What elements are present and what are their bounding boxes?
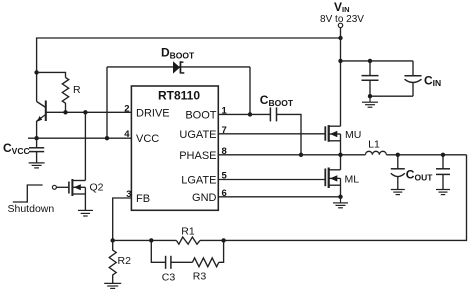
node R1 right branch junction <box>221 238 225 242</box>
node input cap tap <box>368 59 372 63</box>
node ML source GND junction <box>338 195 342 199</box>
wire DBOOT anode vertical <box>106 67 108 138</box>
capacitor C_OUT <box>391 155 405 190</box>
node collector junction <box>34 70 38 74</box>
svg-text:RT8110: RT8110 <box>158 89 200 103</box>
capacitor C_IN <box>405 61 422 96</box>
wire PHASE pin 8 <box>218 154 365 156</box>
wire bottom rail left <box>113 239 177 241</box>
node base R junction <box>63 110 67 114</box>
resistor R2 <box>109 240 116 283</box>
wire top rail <box>37 38 341 72</box>
wire R top feed <box>37 72 66 77</box>
wire BOOT pin 1 <box>218 113 270 115</box>
wire DBOOT rail <box>107 66 250 68</box>
svg-text:BOOT: BOOT <box>185 109 216 121</box>
node COUT junction <box>396 153 400 157</box>
wire output rail <box>386 154 466 156</box>
node top rail / VIN junction <box>338 36 342 40</box>
svg-text:UGATE: UGATE <box>179 129 216 141</box>
svg-text:GND: GND <box>192 192 217 204</box>
svg-text:Q2: Q2 <box>90 182 104 194</box>
svg-text:R1: R1 <box>181 226 195 238</box>
transistor ML low side MOSFET <box>325 155 340 197</box>
node R1 left branch junction <box>149 238 153 242</box>
node FB bottom junction <box>111 238 115 242</box>
svg-text:1: 1 <box>222 105 228 116</box>
capacitor C_VCC <box>29 138 44 163</box>
node CBOOT phase junction <box>299 153 303 157</box>
resistor R <box>62 78 68 113</box>
ground C_VCC <box>29 163 45 168</box>
wire CIN bottom <box>370 95 413 97</box>
node Q2 drain junction <box>83 110 87 114</box>
wire branch down left <box>151 240 165 262</box>
svg-text:FB: FB <box>136 193 150 205</box>
wire bottom rail right <box>200 239 224 241</box>
ground COUT <box>391 190 405 195</box>
wire DRIVE pin 2 <box>46 111 132 113</box>
svg-text:C3: C3 <box>162 272 176 284</box>
svg-text:LGATE: LGATE <box>181 175 216 187</box>
wire C3 to R3 <box>171 261 193 263</box>
node DBOOT VCC junction <box>105 136 109 140</box>
svg-text:3: 3 <box>126 189 131 200</box>
wire branch up right <box>219 240 224 262</box>
wire LGATE pin 5 <box>218 179 325 181</box>
transistor Q1 pass NPN <box>37 72 46 138</box>
svg-text:2: 2 <box>124 103 129 114</box>
diode D_BOOT <box>173 61 184 73</box>
wire BOOT drop <box>249 67 251 115</box>
svg-text:PHASE: PHASE <box>179 150 216 162</box>
svg-text:VCC: VCC <box>136 133 159 145</box>
svg-text:R2: R2 <box>118 255 132 267</box>
capacitor C3 <box>166 256 171 269</box>
svg-text:ML: ML <box>345 174 360 186</box>
ground output cap2 <box>436 190 450 195</box>
resistor R3 <box>192 258 218 267</box>
svg-text:Shutdown: Shutdown <box>8 203 55 215</box>
svg-text:MU: MU <box>345 129 361 141</box>
svg-text:L1: L1 <box>368 139 380 151</box>
ground CIN <box>362 96 378 107</box>
node output cap2 junction <box>441 153 445 157</box>
svg-text:7: 7 <box>222 125 227 136</box>
ground Q2 <box>78 210 93 216</box>
resistor R1 <box>176 237 200 244</box>
node emitter VCC junction <box>34 136 38 140</box>
svg-text:DRIVE: DRIVE <box>136 107 170 119</box>
capacitor output ceramic <box>436 155 450 190</box>
node CIN ground junction <box>368 94 372 98</box>
inductor L1 <box>365 151 386 155</box>
svg-text:8: 8 <box>222 146 227 157</box>
svg-text:8V to 23V: 8V to 23V <box>320 14 364 25</box>
wire feedback right leg <box>224 155 467 241</box>
wire VCC pin 4 <box>28 137 131 139</box>
node VIN to CIN branch <box>338 59 342 63</box>
VIN terminal <box>338 23 342 27</box>
transistor MU high side MOSFET <box>325 125 340 155</box>
svg-text:6: 6 <box>222 188 227 199</box>
svg-text:5: 5 <box>222 171 228 182</box>
wire GND pin 6 <box>218 196 340 198</box>
wire UGATE pin 7 <box>218 133 325 135</box>
svg-text:R3: R3 <box>193 271 207 283</box>
wire CBOOT to phase <box>277 114 302 154</box>
shutdown step symbol <box>13 185 43 202</box>
capacitor input ceramic <box>362 61 379 96</box>
ground power stage <box>333 197 348 208</box>
wire VIN vertical <box>340 28 342 127</box>
node phase junction <box>338 153 342 157</box>
svg-text:4: 4 <box>124 129 130 140</box>
wire CIN feed <box>341 60 414 62</box>
svg-text:R: R <box>73 84 81 96</box>
node BOOT junction <box>248 112 252 116</box>
IC U1 RT8110 box <box>131 86 218 210</box>
ground R2 <box>104 283 121 288</box>
wire FB pin 3 <box>113 198 132 240</box>
capacitor C_BOOT <box>270 107 276 121</box>
transistor Q2 shutdown MOSFET <box>52 112 85 210</box>
